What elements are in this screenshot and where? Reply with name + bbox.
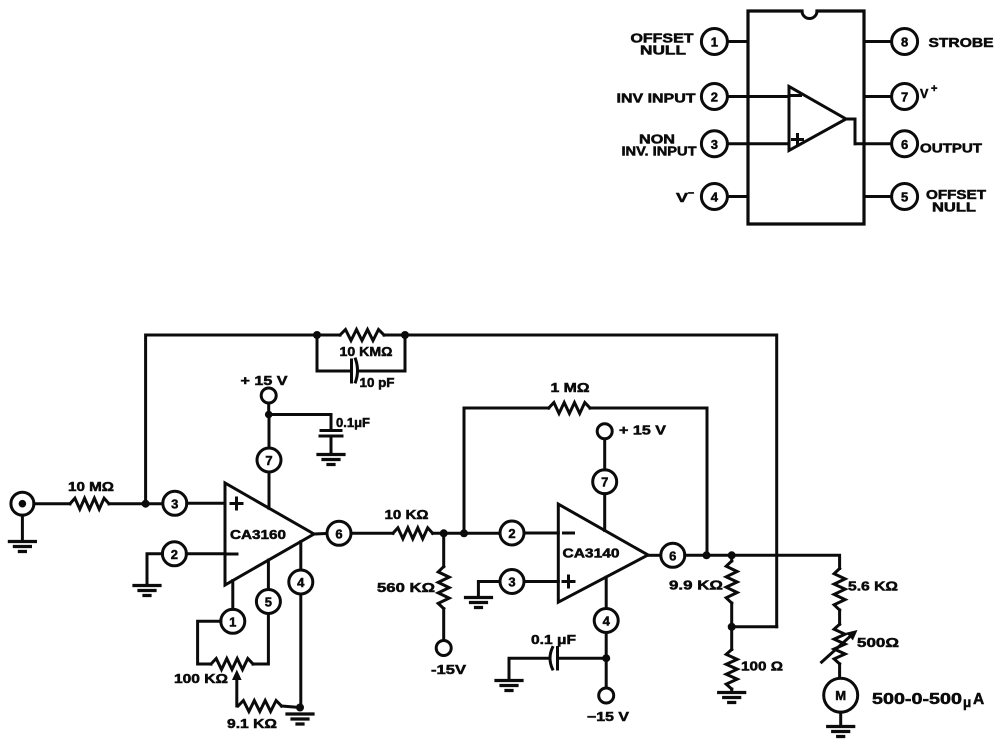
svg-text:0.1μF: 0.1μF — [336, 416, 370, 430]
svg-text:6: 6 — [669, 548, 676, 563]
svg-text:A: A — [973, 691, 984, 708]
svg-text:2: 2 — [171, 547, 178, 562]
svg-text:10 MΩ: 10 MΩ — [68, 480, 114, 494]
svg-text:3: 3 — [711, 137, 718, 152]
svg-text:4: 4 — [603, 614, 611, 629]
svg-text:STROBE: STROBE — [929, 36, 994, 50]
svg-text:1: 1 — [711, 35, 718, 50]
svg-text:NULL: NULL — [932, 201, 976, 215]
svg-text:−15 V: −15 V — [587, 710, 630, 724]
svg-text:500-0-500: 500-0-500 — [872, 691, 962, 708]
svg-text:3: 3 — [171, 496, 178, 511]
svg-text:+: + — [931, 83, 937, 95]
svg-text:+ 15 V: + 15 V — [619, 424, 667, 438]
svg-text:7: 7 — [601, 475, 608, 490]
svg-text:-15V: -15V — [431, 663, 467, 677]
svg-text:NULL: NULL — [640, 44, 686, 58]
svg-text:7: 7 — [901, 90, 908, 105]
svg-text:2: 2 — [711, 90, 718, 105]
svg-text:5: 5 — [265, 595, 272, 610]
svg-text:100 KΩ: 100 KΩ — [174, 672, 228, 686]
svg-text:M: M — [835, 688, 846, 703]
svg-text:7: 7 — [265, 453, 272, 468]
svg-text:5: 5 — [901, 190, 908, 205]
svg-text:CA3160: CA3160 — [230, 528, 286, 542]
svg-text:4: 4 — [297, 575, 305, 590]
svg-text:10 KMΩ: 10 KMΩ — [340, 345, 393, 359]
svg-text:INV. INPUT: INV. INPUT — [622, 145, 697, 159]
svg-text:V: V — [920, 87, 929, 101]
svg-text:2: 2 — [508, 526, 515, 541]
svg-text:6: 6 — [335, 526, 342, 541]
svg-text:5.6 KΩ: 5.6 KΩ — [848, 580, 898, 594]
svg-text:8: 8 — [901, 35, 908, 50]
svg-text:μ: μ — [963, 695, 971, 710]
svg-text:3: 3 — [508, 575, 515, 590]
svg-text:9.9 KΩ: 9.9 KΩ — [669, 579, 723, 593]
svg-text:4: 4 — [711, 190, 719, 205]
svg-text:9.1 KΩ: 9.1 KΩ — [227, 717, 277, 731]
svg-text:10 pF: 10 pF — [360, 376, 395, 390]
svg-text:1: 1 — [229, 614, 236, 629]
svg-text:V: V — [676, 191, 689, 205]
svg-text:–: – — [688, 187, 694, 199]
svg-text:CA3140: CA3140 — [563, 547, 620, 561]
svg-text:OUTPUT: OUTPUT — [920, 142, 982, 156]
svg-text:0.1 μF: 0.1 μF — [531, 633, 576, 647]
svg-text:100 Ω: 100 Ω — [741, 660, 783, 674]
svg-text:+ 15 V: + 15 V — [241, 374, 289, 388]
svg-text:INV INPUT: INV INPUT — [617, 92, 696, 106]
svg-text:6: 6 — [901, 137, 908, 152]
svg-text:500Ω: 500Ω — [857, 636, 899, 650]
svg-text:10 KΩ: 10 KΩ — [385, 508, 429, 522]
svg-text:560 KΩ: 560 KΩ — [377, 581, 435, 595]
svg-text:1 MΩ: 1 MΩ — [551, 381, 590, 395]
